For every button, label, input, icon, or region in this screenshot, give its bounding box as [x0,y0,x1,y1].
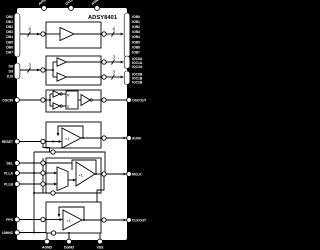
svg-text:IOB5: IOB5 [132,40,140,44]
arrowhead into node N3 [37,69,41,72]
svg-text:D8: D8 [9,64,13,68]
svg-text:D9: D9 [9,69,13,73]
pin MCLKOUT (right) [127,172,132,177]
svg-text:IOB7: IOB7 [132,51,140,55]
pin labels QB0-QB2 [132,73,143,85]
node N18 [102,218,106,222]
node N9 [102,136,106,140]
arrowhead into pin AUXOUT [123,137,126,140]
node N5 [102,75,106,79]
block B6 output amp [19,202,123,239]
svg-text:AUX0: AUX0 [132,136,141,140]
svg-text:OSCIN: OSCIN [2,98,13,102]
svg-text:DB3: DB3 [6,30,13,34]
node N12 [41,171,45,175]
bus slash 3 (QA out) [112,60,115,65]
pin OSCOUT (right) [127,98,132,103]
svg-text:PLLB: PLLB [4,182,13,186]
arrowhead into pill J5 [120,76,124,79]
junction dot B4 in [52,141,54,143]
block B3 oscillator latch [19,90,126,112]
wire clock tap H1 [34,152,105,233]
svg-text:DB7: DB7 [6,51,13,55]
svg-text:DB6: DB6 [6,45,13,49]
bus slash 8 (left) [28,32,31,37]
pin labels D0-D7 [6,15,13,55]
arrowhead mux input PLLB [54,183,57,186]
chip body U1 [17,8,127,240]
bus slash 8 (right) [112,32,115,37]
arrowhead into pill J4 [120,61,124,64]
svg-text:PPS: PPS [6,218,14,222]
arrowhead into node N1 [37,33,41,36]
bus connector J1 (left data bus pill) [14,13,20,57]
bus slash 3 (QB out) [112,75,115,80]
svg-text:CLKOUT: CLKOUT [132,218,146,222]
arrowhead into pin MCLKOUT [123,173,126,176]
svg-text:DGND: DGND [64,246,75,250]
svg-text:SEL: SEL [6,161,13,165]
junction dot B2 [52,69,54,71]
svg-text:D10: D10 [7,74,13,78]
junction dot V1 bottom [33,232,35,234]
arrowhead into amp B6 [60,218,64,221]
svg-text:IOC2A: IOC2A [132,65,143,69]
svg-text:PLLA: PLLA [4,171,13,175]
svg-text:IOB4: IOB4 [132,35,140,39]
arrowhead mux input PLLA [54,172,57,175]
node N1 [41,32,45,36]
node N4 [102,60,106,64]
svg-text:IOB6: IOB6 [132,45,140,49]
svg-text:IOB2: IOB2 [132,25,140,29]
junction dot B6 out [83,219,85,221]
svg-text:OSCOUT: OSCOUT [132,98,146,102]
arrowhead into amp B5 [73,179,76,182]
svg-text:VSS: VSS [97,246,105,250]
svg-text:DB1: DB1 [6,20,13,24]
bus connector J3 (right IO bus pill) [124,13,130,57]
block B1 buffer stage [20,22,120,48]
bus connector J2 (left aux bus pill) [14,63,20,79]
node N8 [41,139,45,143]
node N17 [51,231,55,235]
pin labels D8-D10 [7,64,13,78]
svg-text:×1: ×1 [79,174,83,178]
svg-text:IOB1: IOB1 [132,20,140,24]
svg-text:×1: ×1 [67,219,71,223]
svg-text:10MHZ: 10MHZ [2,231,13,235]
svg-text:MCLK: MCLK [132,172,142,176]
node N13 [41,182,45,186]
junction dot B5 out [95,173,97,175]
svg-text:DB0: DB0 [6,15,13,19]
pin AGND (top 3) [91,0,102,10]
node N7 [102,98,106,102]
pin labels QA0-QA2 [132,57,143,69]
junction dot V1-H2 [33,192,35,194]
pin AGND (bottom 1) [45,239,50,244]
pin DGND (bottom 2) [67,239,72,244]
node N6 [41,98,45,102]
svg-text:IOC2B: IOC2B [132,81,143,85]
pin VSS (bottom 3) [98,239,103,244]
arrowhead feedback B6 [58,214,61,217]
junction dot bottom wire [68,232,70,234]
pin CLKOUT (right) [127,218,132,223]
junction dot B3 [49,99,51,101]
block B4 unity buffer [19,122,123,152]
svg-text:IOB0: IOB0 [132,15,140,19]
block B5 mux and pll amp [19,158,123,202]
pin DVDD (top 2) [65,0,75,10]
arrowhead into pin CLKOUT [123,219,126,222]
junction dot V1-PLLA [33,172,35,174]
bus connector J4 (right QA pill) [124,56,130,69]
svg-text:×1: ×1 [65,137,69,141]
svg-text:IOB3: IOB3 [132,30,140,34]
node N11 [41,161,45,165]
svg-text:DB5: DB5 [6,40,13,44]
pin AVDD (top 1) [38,0,48,10]
node N15 [51,191,55,195]
junction dot B4 out [82,137,84,139]
svg-text:ADSY8401: ADSY8401 [88,15,118,21]
pin AUXOUT (right) [127,136,132,141]
arrowhead into amp B4 [59,140,63,143]
node N14 [102,172,106,176]
node N2 [102,32,106,36]
svg-text:DB4: DB4 [6,35,13,39]
node N16 [41,217,45,221]
svg-text:DB2: DB2 [6,25,13,29]
wire H2 to B6 [34,192,101,194]
block B2 dual driver [20,56,120,85]
svg-text:R: R [67,94,70,98]
node N10 [51,150,55,154]
bus connector J5 (right QB pill) [124,71,130,85]
node N3 [41,68,45,72]
bus slash 3 (left input) [28,68,31,73]
pin labels IO0-IO7 [132,15,140,55]
svg-text:AGND: AGND [42,246,53,250]
arrowhead into pill J3 [120,33,124,36]
arrowhead feedback B4 [57,133,60,136]
svg-text:RESET: RESET [2,140,14,144]
